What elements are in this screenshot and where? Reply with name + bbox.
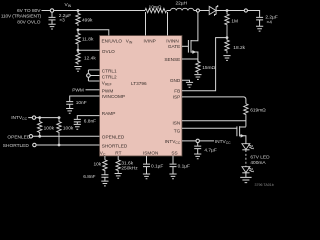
svg-text:0.1µF: 0.1µF [178,163,190,169]
svg-text:EN/UVLO: EN/UVLO [102,38,123,43]
wire diode to VOUT node [216,10,245,12]
svg-text:22µH: 22µH [176,1,188,7]
resistor R12 100k [57,118,74,145]
capacitor C5 0.1uF ISMON [143,163,163,173]
ground 10nF [66,109,73,114]
label 2.2uF x3 [59,13,71,24]
svg-text:10mΩ: 10mΩ [149,5,162,11]
svg-text:×3: ×3 [59,18,65,24]
node divider top [77,9,80,12]
ground VC [101,181,108,186]
svg-text:CTRL1: CTRL1 [102,68,117,73]
wire CTRL1 [88,69,99,71]
wire VREF [88,80,99,82]
resistor R9 10k [93,160,107,175]
svg-text:100k: 100k [44,126,55,132]
node OPENLED terminal [29,135,32,138]
wire GND pin [182,80,190,82]
svg-text:CTRL2: CTRL2 [102,74,117,79]
resistor R3 12.4k [76,50,97,64]
node 1M tap [226,9,229,12]
node VIN input terminal [42,9,54,12]
node 100k R11 tap [38,116,41,119]
svg-text:3796 TA01b: 3796 TA01b [255,183,274,187]
wire INTVCC pin [182,139,214,146]
node INTVCC terminal [28,116,36,119]
svg-text:ISN: ISN [172,120,180,125]
svg-text:GND: GND [170,78,181,83]
wire ISMON pin [146,156,148,164]
node EN/UVLO tap [77,28,80,31]
wire FB [182,38,227,91]
wire CTRL tie [87,70,89,81]
ground RAMP [74,124,81,129]
svg-text:67V LED: 67V LED [250,154,270,160]
svg-text:FB: FB [174,89,180,94]
capacitor C7 10nF [66,100,87,109]
svg-text:PWM: PWM [102,88,114,93]
wire VOUT to output cap [248,11,260,18]
transistor Q2 PMOS disconnect [237,126,246,144]
node OPENLED 100k junction [38,135,41,138]
capacitor C2 2.2uF x4 [256,15,278,27]
resistor R4 10mOhm input sense [145,5,167,13]
svg-text:LT3796: LT3796 [131,81,147,86]
wire CTRL2 [88,75,99,77]
svg-text:0.1µF: 0.1µF [151,163,163,169]
svg-text:PWM: PWM [72,87,84,93]
svg-text:OPENLED: OPENLED [7,134,30,140]
resistor R7 15mOhm [196,59,216,74]
svg-text:SHORTLED: SHORTLED [102,143,128,148]
ground output cap [256,26,263,31]
wire OPENLED [33,135,100,137]
svg-text:2.2µF: 2.2µF [265,15,277,21]
wire SENSE [182,58,198,60]
svg-text:4.7µF: 4.7µF [204,147,216,153]
ground RT [115,174,122,179]
wire switch node to diode [200,10,210,12]
wire VIN rail [54,10,145,12]
node SHORTLED 100k junction [58,144,61,147]
resistor R5 1M [225,11,238,38]
resistor R2 11.8k [76,30,94,50]
svg-text:RAMP: RAMP [102,111,116,116]
svg-text:SHORTLED: SHORTLED [3,143,30,149]
svg-text:RT: RT [115,151,121,156]
wire SS pin [172,156,174,164]
LED D2 [242,144,254,150]
node CTRL terminal [87,74,91,78]
svg-text:6.8nF: 6.8nF [84,118,96,124]
svg-text:ISMON: ISMON [143,151,158,156]
svg-text:1M: 1M [231,18,238,24]
svg-text:IVINP: IVINP [144,38,156,43]
svg-text:250kHz: 250kHz [121,165,138,171]
svg-text:110V (TRANSIENT): 110V (TRANSIENT) [1,13,42,19]
capacitor C8 6.8nF RAMP [74,118,96,124]
svg-text:TG: TG [174,128,181,133]
svg-text:10nF: 10nF [76,100,87,106]
inductor L1 22uH [171,1,194,11]
svg-text:15mΩ: 15mΩ [202,65,215,71]
ground input cap [48,24,55,29]
ground 4.7uF [194,154,201,159]
wire IVINN stub [167,12,169,36]
svg-text:18.2k: 18.2k [233,45,245,51]
svg-text:12.4k: 12.4k [84,55,96,61]
svg-text:IVINCOMP: IVINCOMP [102,94,125,99]
capacitor C4 6.8nF VC [83,174,108,181]
svg-text:OPENLED: OPENLED [102,135,125,140]
chip U1 LT3796 [100,36,183,157]
svg-text:IVINN: IVINN [166,38,179,43]
wire GATE [182,45,188,47]
svg-text:6V TO 80V: 6V TO 80V [17,8,41,14]
svg-text:GATE: GATE [168,44,180,49]
wire EN/UVLO [78,30,109,36]
wire inductor to switch node [194,10,197,12]
svg-text:×4: ×4 [266,20,272,26]
ground switch sense [194,75,201,80]
wire IVINCOMP [70,96,100,101]
wire ISP [182,97,246,104]
ground FB divider [223,56,230,61]
wire ISN [182,120,246,122]
node SHORTLED terminal [33,143,36,146]
svg-text:ISP: ISP [173,94,181,99]
wire PWM [86,89,100,91]
resistor R10 31.6k [116,160,138,174]
node VOUT [244,9,247,12]
svg-text:80V OVLO: 80V OVLO [17,20,40,26]
svg-text:OVLO: OVLO [102,49,115,54]
svg-text:10k: 10k [93,161,101,167]
node 100k R12 tap [58,116,61,119]
diode D1 [209,5,218,16]
wire IVINP stub [145,12,147,36]
ground SS [169,174,176,179]
node FB tap [226,36,229,39]
ground LED string [240,173,251,183]
wire RT pin [117,156,119,160]
wire VC pin [104,156,106,160]
svg-text:400mA: 400mA [250,160,266,166]
ground GND pin [186,82,193,87]
wire SHORTLED [36,144,99,146]
node OVLO tap [77,49,80,52]
ground divider [74,67,81,72]
wire INTVCC rail [36,117,61,119]
transistor Q1 NMOS [188,12,198,61]
node switch [196,9,199,12]
label input voltage range [1,8,42,26]
svg-text:619mΩ: 619mΩ [250,107,266,113]
svg-text:499k: 499k [82,17,93,23]
resistor R8 619mOhm LED sense [244,104,266,115]
capacitor C6 0.1uF SS [170,163,191,173]
resistor R1 499k [76,11,93,27]
svg-text:31.6k: 31.6k [121,160,133,166]
label LED string [250,154,270,166]
svg-text:100k: 100k [63,126,74,132]
LED D3 [242,167,254,173]
resistor R11 100k [38,118,55,137]
wire LED string dashed [245,150,247,167]
capacitor C3 4.7uF [194,146,217,154]
wire OVLO [78,49,100,51]
wire LED+ column [245,115,247,126]
capacitor C1 2.2uF x3 [49,12,56,24]
wire TG [182,127,237,129]
ground ISMON [143,174,150,179]
svg-text:SS: SS [171,151,177,156]
svg-text:6.8nF: 6.8nF [83,174,95,180]
wire rail resistor to inductor [167,10,171,12]
wire RAMP [77,116,99,120]
resistor R6 18.2k [225,38,246,54]
svg-text:SENSE: SENSE [164,57,180,62]
svg-text:11.8k: 11.8k [82,36,94,42]
